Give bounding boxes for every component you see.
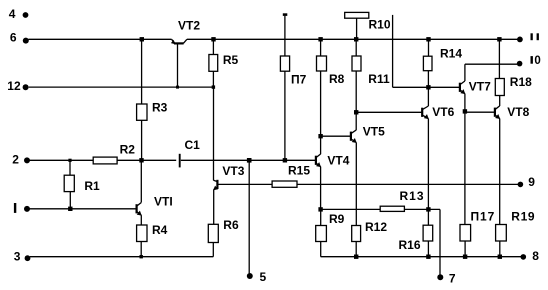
svg-text:VT3: VT3 [222, 164, 244, 178]
svg-text:VTI: VTI [154, 194, 173, 208]
resistor П17 [460, 225, 471, 242]
label pin 10 [531, 55, 541, 67]
node junction VT7 base / R14 line [426, 85, 430, 89]
wire R3 top lead [141, 39, 143, 104]
capacitor C1 [179, 154, 181, 168]
svg-text:R11: R11 [368, 72, 390, 86]
svg-text:R5: R5 [223, 53, 239, 67]
wire pin-12 rail [29, 86, 215, 88]
node pin 6 [23, 38, 29, 44]
wire R1 top lead [69, 160, 71, 175]
resistor R4 [137, 225, 147, 242]
svg-text:R8: R8 [329, 72, 345, 86]
node П7 top terminal [283, 13, 288, 16]
wire VT8 base [465, 111, 495, 113]
node pin 7 [437, 274, 443, 280]
node pin 4 [23, 12, 29, 18]
resistor R14 [423, 56, 432, 70]
node pin 10 [517, 61, 523, 67]
wire R10 bottom stub [356, 18, 358, 39]
svg-text:П7: П7 [291, 73, 307, 87]
resistor R10 [345, 12, 369, 18]
node pin 2 [24, 157, 30, 163]
wire R18 top lead [498, 39, 500, 78]
node junction top rail / R3 [140, 37, 144, 41]
resistor R2 [93, 157, 117, 164]
transistor VT4 [316, 154, 321, 167]
svg-text:0: 0 [534, 55, 540, 67]
svg-text:R10: R10 [369, 18, 391, 32]
wire R9 top lead [320, 209, 322, 225]
node junction bottom rail / R12 [354, 255, 358, 259]
wire VT5 emitter to R12 [355, 143, 357, 226]
wire VT4 emitter drop [320, 167, 322, 210]
transistor VT7 [460, 81, 465, 94]
svg-text:3: 3 [14, 249, 21, 263]
node junction pin12 rail / R5 line [212, 85, 215, 88]
wire R14 top lead [428, 39, 430, 56]
wire VT4 emitter row to R13 corner [321, 208, 440, 210]
svg-text:VT5: VT5 [363, 125, 385, 139]
wire П17 bottom lead [464, 241, 466, 257]
wire VT7 base [393, 86, 460, 88]
wire bottom rail to pin 8 [321, 256, 522, 258]
svg-text:VT8: VT8 [507, 105, 529, 119]
node junction pin3 rail / R4 [140, 255, 143, 258]
resistor R18 [495, 79, 504, 96]
svg-text:R18: R18 [510, 75, 532, 89]
transistor VT8 [495, 106, 500, 119]
svg-text:12: 12 [7, 79, 21, 93]
node junction pin12 rail / VT2 base [176, 86, 179, 89]
node junction bottom rail / R16 [426, 255, 430, 259]
node junction R13 row / VT4 emitter [318, 207, 322, 211]
svg-text:R15: R15 [288, 163, 310, 177]
node pin 12 [23, 84, 29, 90]
svg-text:R4: R4 [152, 223, 168, 237]
wire pin-7 drop [439, 209, 441, 274]
node junction VT5 base / R8 line [318, 134, 322, 138]
resistor R8 [317, 56, 327, 71]
node pin 3 [25, 255, 31, 261]
svg-text:R9: R9 [329, 212, 345, 226]
node junction top rail / R14 [426, 37, 430, 41]
wire pin-3 bottom rail [30, 256, 214, 258]
svg-text:R19: R19 [511, 210, 535, 224]
resistor R3 [137, 104, 147, 120]
resistor R16 [423, 225, 433, 241]
node junction pin2 row / R1 [68, 159, 71, 162]
svg-text:R6: R6 [223, 218, 239, 232]
wire VT5 base [321, 135, 351, 137]
node junction pin1 row / R1 [68, 207, 72, 211]
svg-text:7: 7 [449, 271, 456, 285]
wire R14 bottom to VT6 collector [427, 71, 429, 106]
label pin 1 [14, 203, 16, 213]
svg-text:VT4: VT4 [327, 154, 349, 168]
node junction VT6 base / R11 line [354, 110, 358, 114]
resistor R12 [352, 226, 361, 242]
wire VT3 base to pin 9 through R15 [217, 183, 518, 185]
wire VT1 emitter to R4 [140, 215, 142, 225]
node junction R13 row / VT6-R16 [426, 207, 430, 211]
wire П7 vertical [284, 16, 286, 161]
resistor R13 [380, 206, 404, 211]
wire R1 bottom lead [69, 192, 71, 209]
wire R5 top lead [212, 39, 214, 54]
node junction top rail / R5 [211, 37, 215, 41]
wire R11 bottom to VT5 collector [355, 71, 357, 130]
wire pin-6 top rail left of VT2 [28, 38, 171, 40]
wire pin-2 row to C1 [30, 159, 177, 161]
node junction bottom rail / R19 [498, 255, 502, 259]
svg-text:R14: R14 [440, 47, 462, 61]
node junction pin2 row / R3-VT1 [139, 158, 143, 162]
resistor R1 [64, 175, 74, 191]
svg-text:R12: R12 [365, 220, 387, 234]
wire R19 bottom lead [499, 241, 501, 257]
node pin 11 [517, 37, 523, 43]
svg-text:R13: R13 [400, 189, 425, 203]
node junction top rail / R18 [497, 37, 501, 41]
wire R8 bottom to VT4 collector [320, 71, 322, 154]
svg-text:R16: R16 [399, 238, 421, 252]
resistor R5 [209, 55, 218, 72]
wire pin-1 to VT1 base [30, 208, 137, 210]
svg-text:4: 4 [9, 7, 16, 21]
svg-text:VT7: VT7 [469, 80, 491, 94]
wire R3 bottom lead [141, 120, 143, 160]
svg-text:5: 5 [260, 270, 267, 284]
wire VT2 base drop [177, 44, 179, 88]
svg-text:9: 9 [528, 175, 535, 189]
svg-text:VT6: VT6 [432, 105, 454, 119]
wire R10-right vertical [392, 15, 394, 87]
resistor R11 [352, 56, 361, 71]
wire R4 bottom lead [140, 242, 142, 257]
svg-text:П17: П17 [471, 209, 496, 223]
wire pin-6 top rail right of VT2 [187, 38, 518, 40]
resistor R19 [496, 225, 507, 242]
wire R12 bottom lead [355, 242, 357, 257]
wire C1 to VT4 base [181, 159, 316, 161]
wire VT1 collector [140, 160, 142, 202]
transistor VT5 [351, 130, 357, 143]
resistor R9 [316, 226, 327, 242]
wire VT8 collector from R18 [499, 96, 501, 107]
wire R6 bottom lead [212, 243, 214, 257]
node junction VT8 base / VT7 emitter [463, 109, 467, 113]
node pin 1 [24, 206, 30, 212]
svg-text:C1: C1 [185, 138, 201, 152]
node pin 5 [247, 273, 253, 279]
wire R11 top lead [355, 39, 357, 56]
transistor VT1 [137, 203, 142, 216]
node junction top rail / R8 [318, 37, 322, 41]
svg-text:VT2: VT2 [178, 19, 200, 33]
svg-text:R3: R3 [152, 101, 168, 115]
transistor VT2 (PNP) [171, 39, 187, 44]
svg-text:R1: R1 [84, 179, 100, 193]
node pin 8 [521, 254, 527, 260]
wire VT6 base [356, 111, 422, 113]
node junction pin2 row / П7 line [283, 158, 287, 162]
node junction pin2 row / pin5 line [247, 158, 252, 163]
wire VT3 emitter to R6 [213, 190, 215, 225]
svg-text:8: 8 [532, 249, 539, 263]
node junction top rail / R10-R11 [354, 37, 358, 41]
wire pin-5 drop [248, 160, 250, 273]
wire VT7 collector drop [464, 64, 466, 81]
wire R16 bottom lead [427, 241, 429, 257]
wire VT6 emitter drop [427, 119, 429, 226]
resistor R15 [272, 181, 297, 187]
resistor П7 [280, 56, 289, 71]
wire VT3 collector drop [213, 87, 215, 180]
transistor VT6 [422, 106, 429, 119]
node pin 9 [518, 182, 524, 188]
wire R9 bottom lead [320, 242, 322, 257]
svg-text:R2: R2 [120, 143, 136, 157]
wire R8 top lead [320, 39, 322, 56]
wire R5 bottom lead [212, 71, 214, 87]
svg-text:2: 2 [12, 153, 19, 167]
wire pin-10 row [465, 63, 517, 65]
wire VT8 emitter to R19 [499, 119, 501, 225]
resistor R6 [208, 224, 218, 242]
svg-text:6: 6 [10, 30, 17, 44]
wire VT7 emitter to П17 [464, 94, 466, 225]
transistor VT3 [213, 180, 218, 190]
node junction bottom rail / П17 [463, 255, 467, 259]
label pin 11 [531, 33, 539, 40]
